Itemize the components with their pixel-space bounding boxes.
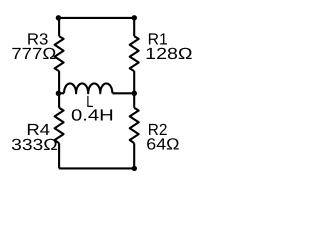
junction dot middle-left [56, 91, 61, 96]
svg-text:128Ω: 128Ω [145, 45, 192, 63]
junction dot bottom-right [132, 166, 137, 171]
wire left rail lower [58, 143, 60, 168]
svg-text:333Ω: 333Ω [11, 136, 58, 154]
junction dot middle-right [132, 91, 137, 96]
svg-text:64Ω: 64Ω [146, 135, 179, 153]
wire right rail lower [133, 143, 135, 168]
junction dot top-left [56, 15, 61, 20]
resistor R3 [55, 36, 64, 71]
resistor R4 [55, 108, 64, 143]
inductor L [64, 83, 112, 93]
wire left rail middle [58, 71, 60, 108]
wire left rail upper stub [58, 18, 60, 36]
resistor R2 [130, 108, 139, 143]
junction dot top-right [132, 15, 137, 20]
wire middle right lead [112, 92, 134, 94]
wire right rail upper stub [133, 18, 135, 36]
svg-text:0.4H: 0.4H [71, 106, 114, 124]
wire middle left lead [59, 92, 64, 94]
resistor R1 [130, 36, 139, 71]
wire right rail middle [133, 71, 135, 108]
wire top rail [59, 17, 134, 19]
svg-text:777Ω: 777Ω [11, 45, 56, 63]
wire bottom rail [59, 167, 134, 169]
